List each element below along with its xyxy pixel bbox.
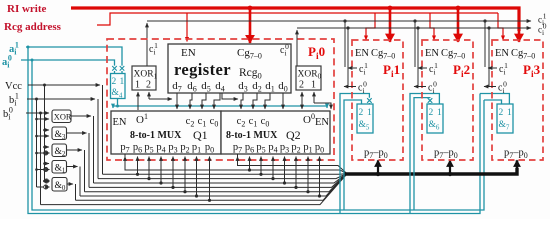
wire RI write (thick red bus) xyxy=(71,8,519,31)
svg-text:bi0: bi0 xyxy=(3,106,13,122)
svg-text:2: 2 xyxy=(299,80,304,91)
wire d6 drop xyxy=(190,93,192,109)
wire Rcg address drop to Pi3 EN xyxy=(498,13,503,40)
svg-text:1: 1 xyxy=(135,80,140,91)
pins p7..p0 (Q1) xyxy=(120,142,214,155)
pins c2 c1 c0 (Q2) xyxy=(237,116,270,129)
svg-text:2: 2 xyxy=(146,80,151,91)
wire bottom teal a-bus risers Pi3 (bus ends) xyxy=(480,94,509,105)
svg-text:ci1: ci1 xyxy=(429,61,438,77)
wire XOR0 pin2 to MUX O0 xyxy=(301,92,303,99)
wire XOR input2 stub xyxy=(37,119,50,187)
junction dots on c buses xyxy=(343,19,490,29)
wire Q1 p-pin drops xyxy=(125,157,320,201)
wire XOR1 pin2 hook to d7 xyxy=(148,92,150,99)
svg-text:EN: EN xyxy=(181,47,196,59)
wire Rcg address drop to Pi1 EN xyxy=(366,13,375,40)
wire ladder L4 xyxy=(94,174,347,183)
svg-text:Rcg address: Rcg address xyxy=(4,21,62,33)
wire AND2 output xyxy=(67,149,83,151)
wire d2 drop xyxy=(253,93,257,109)
wire AND1 input stubs xyxy=(45,163,50,165)
pins d7..d0 (register) xyxy=(172,80,288,94)
junction dots ladder xyxy=(136,168,321,202)
wire AND3 input stubs xyxy=(45,129,50,131)
wire bottom teal a-bus risers Pi2 xyxy=(410,94,439,214)
node c_i1 c_i0 labels with arrows (Pi2) xyxy=(418,67,427,69)
wire d7 drop xyxy=(176,93,178,109)
svg-text:Cg7–0: Cg7–0 xyxy=(511,48,535,61)
svg-text:Vcc: Vcc xyxy=(5,81,22,92)
svg-text:2: 2 xyxy=(499,108,504,118)
svg-text:p7–p0: p7–p0 xyxy=(434,148,458,161)
svg-text:XOR: XOR xyxy=(54,113,72,122)
wire ladder L5 xyxy=(89,174,346,187)
wire Q2 p-pin drops xyxy=(237,157,239,161)
wire AND0 input stubs xyxy=(43,180,45,182)
svg-text:ai0: ai0 xyxy=(2,54,12,70)
XOR1 gate box xyxy=(132,66,156,90)
gate XOR (left column) xyxy=(52,110,71,123)
wire AND1 output xyxy=(67,166,78,168)
node c_i1 c_i0 labels with arrows (Pi3) xyxy=(488,67,497,69)
wire ladder L7 xyxy=(80,175,346,196)
dashed box Pi2 xyxy=(422,40,473,160)
pins p7..p0 (Q2) xyxy=(233,142,324,155)
junction dots input columns xyxy=(35,84,46,115)
wire p bus arrow to Pi1 xyxy=(377,160,379,174)
svg-text:2: 2 xyxy=(429,108,434,118)
svg-text:2: 2 xyxy=(359,108,364,118)
wire d4 drop xyxy=(214,93,220,109)
dashed box Pi3 xyxy=(492,40,543,160)
wire Rcg address (thin red) xyxy=(97,13,503,42)
inverter bubbles xyxy=(44,151,49,189)
wire XOR output xyxy=(67,116,94,200)
wire ladder L2 xyxy=(103,173,347,176)
svg-text:Pi1: Pi1 xyxy=(383,62,400,80)
XOR0 gate box xyxy=(296,66,321,90)
wire p bus (thick black) xyxy=(344,168,517,174)
svg-text:1: 1 xyxy=(367,108,372,118)
wire ladder L8 xyxy=(76,175,347,201)
junction dots on columns at stubs xyxy=(35,118,46,183)
wire c_i1 tap Pi1 xyxy=(344,21,346,67)
svg-text:EN: EN xyxy=(355,48,369,59)
gate AND3 xyxy=(52,127,67,140)
wire Vcc column x46 xyxy=(44,85,46,181)
wire ladder L6 xyxy=(85,174,347,191)
wire AND2 input stubs xyxy=(45,146,50,148)
wire p bus arrow to Pi2 xyxy=(449,160,451,174)
svg-text:1: 1 xyxy=(507,108,512,118)
svg-text:ci0: ci0 xyxy=(358,80,367,96)
svg-text:register: register xyxy=(174,60,231,79)
dashed box Pi1 xyxy=(352,40,403,160)
wire d1 drop xyxy=(265,93,270,109)
wire XOR1 pin1 to MUX O1 xyxy=(138,92,331,110)
wire bottom teal a-bus risers Pi1 xyxy=(340,94,509,214)
svg-text:Cg7–0: Cg7–0 xyxy=(371,48,395,61)
wire d4 hook to d3 xyxy=(222,93,238,99)
svg-text:8-to-1 MUX: 8-to-1 MUX xyxy=(226,130,278,141)
svg-text:RI write: RI write xyxy=(7,3,47,15)
svg-text:ci0: ci0 xyxy=(498,80,507,96)
wire d3 drop xyxy=(241,93,243,109)
svg-text:EN: EN xyxy=(113,117,127,128)
MUX Q2 box xyxy=(221,111,330,154)
wire ladder L1 xyxy=(125,154,346,173)
wire c_i1 tap Pi3 xyxy=(484,21,486,67)
svg-text:Pi3: Pi3 xyxy=(523,62,541,80)
wire AND3 output xyxy=(67,132,87,134)
svg-text:2: 2 xyxy=(112,77,117,87)
svg-text:Q2: Q2 xyxy=(286,128,301,142)
svg-text:1: 1 xyxy=(120,77,125,87)
wire b_i1 column x38 xyxy=(36,99,38,187)
pin cross marks on AND4 inputs xyxy=(112,66,124,71)
wire d0 drop xyxy=(282,93,284,109)
gate AND1 xyxy=(52,161,67,174)
svg-text:ci1: ci1 xyxy=(359,61,368,77)
wire XOR0 pin1 hook xyxy=(313,92,315,103)
svg-text:Pi0: Pi0 xyxy=(308,44,325,62)
wire ladder L0 xyxy=(41,154,347,205)
wire c_i0 tap Pi2 xyxy=(417,28,419,86)
svg-text:EN: EN xyxy=(495,48,509,59)
register U-reg box xyxy=(168,44,291,93)
svg-text:EN: EN xyxy=(315,117,329,128)
wire Rcg address drop to register EN xyxy=(186,13,188,42)
svg-text:Q1: Q1 xyxy=(193,128,208,142)
wire c_i0 tap Pi3 xyxy=(488,28,490,86)
svg-text:ci1: ci1 xyxy=(499,61,508,77)
svg-text:p7–p0: p7–p0 xyxy=(504,148,528,161)
wire c_i0 bus xyxy=(296,30,298,66)
wire b_i0 feed xyxy=(26,112,49,114)
svg-text:ci0: ci0 xyxy=(538,22,547,38)
MUX Q1 box xyxy=(111,111,221,154)
wire AND0 output xyxy=(67,183,73,185)
wire c_i0 tap Pi1 xyxy=(347,28,349,86)
wire c_i1 bus xyxy=(147,21,531,86)
svg-text:ci1: ci1 xyxy=(149,41,158,57)
gate AND6 (Pi2) xyxy=(427,104,443,133)
wire Rcg address drop to Pi2 EN xyxy=(430,13,434,40)
pin cross marks Pi1..Pi3 gates xyxy=(369,103,430,104)
wire a_i1 (teal) to AND4 pin1 and left riser xyxy=(21,47,484,214)
gate AND0 xyxy=(52,178,67,192)
gate AND7 (Pi3) xyxy=(497,104,513,133)
pins c2 c1 c0 (Q1) xyxy=(186,116,219,129)
node c_i1 c_i0 labels with arrows (Pi1) xyxy=(344,68,497,87)
gate AND2 xyxy=(52,144,67,157)
wire RI write drop to register Cg xyxy=(248,6,519,43)
svg-text:8-to-1 MUX: 8-to-1 MUX xyxy=(130,130,182,141)
wire b_i1 feed xyxy=(27,98,95,100)
junction a_i risers xyxy=(27,46,34,62)
wire ladder L3 xyxy=(98,174,346,179)
svg-text:EN: EN xyxy=(425,48,439,59)
dashed box Pi0 xyxy=(107,39,334,160)
wire a_i0 (teal) to AND4 pin2 and left riser xyxy=(21,60,115,66)
svg-text:1: 1 xyxy=(311,80,316,91)
svg-text:1: 1 xyxy=(437,108,442,118)
wire d5 drop xyxy=(202,93,206,109)
svg-text:Cg7–0: Cg7–0 xyxy=(441,48,465,61)
wire c_i1 tap Pi2 xyxy=(414,21,416,67)
svg-text:Pi2: Pi2 xyxy=(453,62,470,80)
wire AND4 output to MUX EN line (teal) xyxy=(113,99,327,109)
svg-text:ci0: ci0 xyxy=(428,80,437,96)
svg-text:p7–p0: p7–p0 xyxy=(364,148,388,161)
wire ladder L9 xyxy=(41,175,347,205)
gate AND5 (Pi1) xyxy=(357,104,373,133)
gate AND4 (2 1 / &4) xyxy=(111,74,126,100)
wire Vcc feed xyxy=(26,85,103,205)
